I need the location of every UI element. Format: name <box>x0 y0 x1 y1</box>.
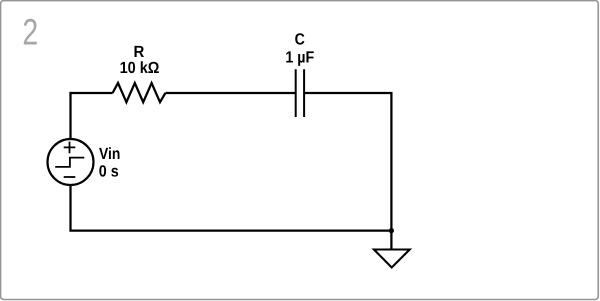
minus sign inside Vin <box>64 176 76 178</box>
svg-text:1 µF: 1 µF <box>285 48 314 66</box>
wire: bottom run from ground node to Vin bottom <box>71 185 392 231</box>
wire: left vertical from Vin top to top-left corner, across to resistor left terminal <box>71 93 113 140</box>
capacitor C plates <box>296 69 304 117</box>
svg-text:2: 2 <box>22 12 38 53</box>
plus sign inside Vin <box>64 142 76 154</box>
svg-text:C: C <box>295 30 305 48</box>
step waveform inside Vin <box>55 158 84 167</box>
svg-text:Vin: Vin <box>99 145 120 163</box>
ground <box>374 231 410 268</box>
voltage source Vin (step source) <box>48 139 94 185</box>
resistor R <box>113 83 166 102</box>
svg-text:0 s: 0 s <box>99 163 119 181</box>
svg-text:10 kΩ: 10 kΩ <box>120 59 160 77</box>
svg-text:R: R <box>134 43 145 61</box>
wire: capacitor right plate to top-right corner, down to ground node <box>304 93 391 231</box>
wire: resistor right terminal to capacitor left plate <box>165 92 295 94</box>
node: junction dot at ground connection <box>389 228 394 233</box>
